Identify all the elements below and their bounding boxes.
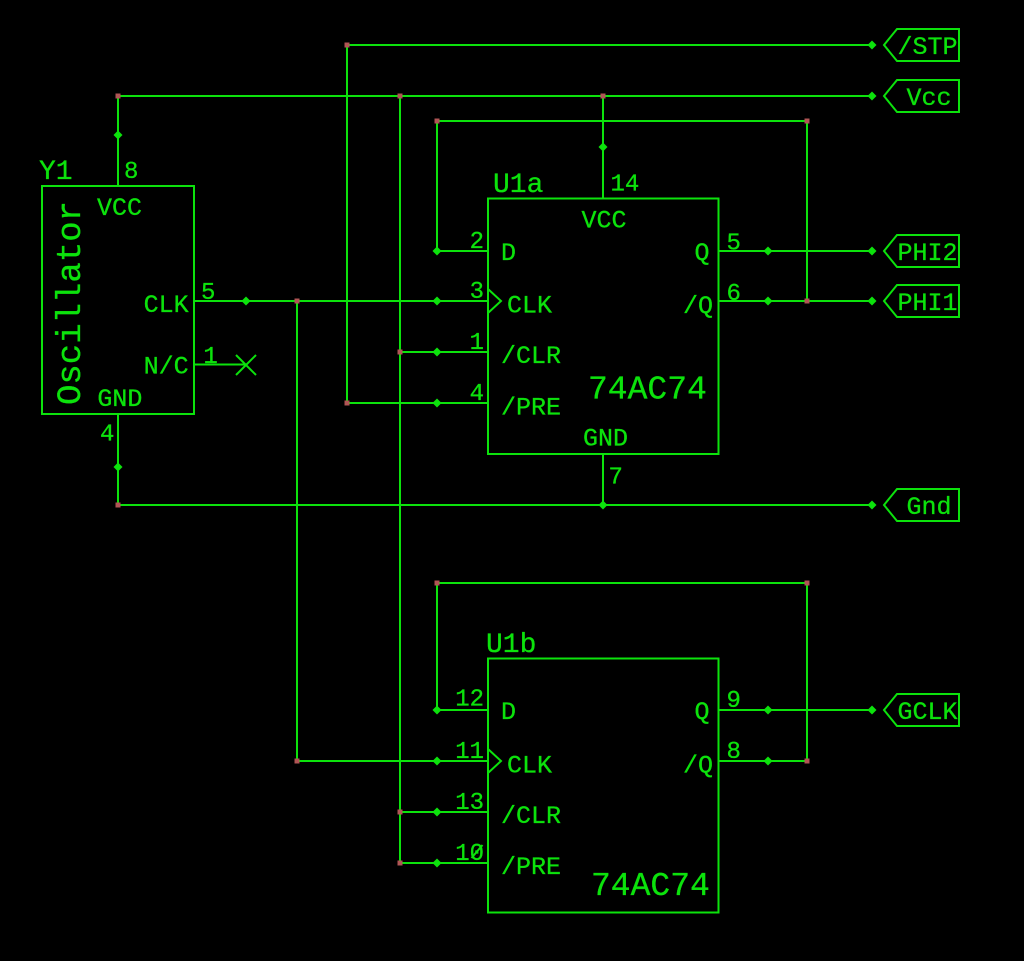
wire net CLK to U1b pin 11: [297, 760, 437, 762]
Y1 pin 1 N/C: [194, 344, 246, 371]
wire U1a feedback vertical: [806, 121, 808, 301]
Y1 pin 8: [118, 135, 138, 186]
Y1 pin 5 CLK: [194, 280, 246, 307]
svg-text:PHI1: PHI1: [898, 289, 958, 318]
wire net Vcc long vertical: [399, 96, 401, 863]
junction dots (pin/net connections): [114, 41, 877, 868]
U1b pin 12 D: [437, 687, 488, 714]
hierarchical label /STP: [884, 29, 959, 62]
svg-text:74AC74: 74AC74: [591, 868, 710, 905]
svg-text:N/C: N/C: [144, 353, 189, 382]
hierarchical label GCLK: [884, 694, 959, 727]
svg-text:5: 5: [727, 231, 741, 258]
wire net PHI2 from U1a Q: [768, 250, 872, 252]
wire net Gnd horizontal: [118, 504, 872, 506]
U1a pin 7 GND: [603, 454, 623, 505]
wire net Vcc to U1b /PRE: [400, 862, 437, 864]
svg-text:U1a: U1a: [493, 170, 543, 201]
svg-text:/PRE: /PRE: [501, 394, 561, 423]
svg-text:12: 12: [455, 687, 484, 714]
no-connect X on Y1 pin 1: [236, 355, 256, 375]
svg-text:8: 8: [124, 159, 138, 186]
svg-text:GND: GND: [583, 425, 628, 454]
svg-text:/CLR: /CLR: [501, 802, 561, 831]
svg-text:Gnd: Gnd: [907, 493, 952, 522]
U1b pin 13 /CLR: [437, 790, 488, 817]
svg-text:4: 4: [100, 422, 114, 449]
svg-text:Oscillator: Oscillator: [53, 201, 91, 405]
Y1 pin 4: [100, 414, 118, 467]
svg-text:Vcc: Vcc: [907, 84, 952, 113]
svg-text:1: 1: [470, 330, 484, 357]
hierarchical label Vcc: [884, 80, 959, 113]
wire net /STP to U1a /PRE: [347, 402, 437, 404]
svg-text:Q: Q: [695, 239, 710, 268]
wire net CLK horizontal: [246, 300, 437, 302]
svg-text:D: D: [501, 698, 516, 727]
U1a pin 2 D: [437, 229, 488, 256]
oscillator Y1 body: [42, 186, 194, 414]
wire net Gnd vertical from Y1 pin 4: [117, 467, 119, 505]
wire net PHI1 from U1a /Q: [768, 300, 872, 302]
wire net Vcc drop to Y1 pin 8: [117, 96, 119, 135]
net endpoint markers (red): [116, 43, 810, 866]
U1a pin 14 VCC: [603, 147, 639, 199]
wire U1a feedback horizontal: [437, 120, 807, 122]
svg-text:CLK: CLK: [507, 292, 552, 321]
wire net /STP horizontal: [347, 44, 872, 46]
svg-text:/CLR: /CLR: [501, 342, 561, 371]
svg-text:PHI2: PHI2: [898, 239, 958, 268]
svg-text:VCC: VCC: [97, 194, 142, 223]
svg-text:2: 2: [470, 229, 484, 256]
U1a pin 1 /CLR: [437, 330, 488, 357]
svg-text:Y1: Y1: [39, 157, 73, 188]
svg-text:3: 3: [470, 279, 484, 306]
svg-text:11: 11: [455, 739, 484, 766]
svg-text:CLK: CLK: [507, 752, 552, 781]
wire U1b feedback vertical: [806, 583, 808, 761]
flip-flop U1b body: [488, 659, 719, 913]
svg-text:U1b: U1b: [486, 630, 536, 661]
svg-text:Q: Q: [695, 698, 710, 727]
svg-text:/STP: /STP: [898, 33, 958, 62]
U1a pin 3 CLK: [437, 279, 488, 306]
U1a pin 5 Q: [719, 231, 769, 258]
svg-text:10: 10: [455, 841, 484, 868]
svg-text:9: 9: [727, 688, 741, 715]
U1a clock triangle: [488, 289, 501, 313]
svg-text:GCLK: GCLK: [898, 698, 958, 727]
U1a pin 6 /Q: [719, 281, 769, 308]
svg-text:6: 6: [727, 281, 741, 308]
svg-text:VCC: VCC: [582, 207, 627, 236]
wire U1a feedback drop to D: [436, 121, 438, 251]
flip-flop U1a body: [488, 199, 719, 455]
wire net Vcc horizontal: [118, 95, 872, 97]
svg-text:1: 1: [203, 344, 217, 371]
wire U1b feedback from /Q: [768, 760, 807, 762]
U1b pin 8 /Q: [719, 739, 769, 766]
svg-text:CLK: CLK: [144, 291, 189, 320]
svg-text:8: 8: [727, 739, 741, 766]
wire net GCLK from U1b Q: [768, 709, 872, 711]
svg-text:/Q: /Q: [683, 752, 713, 781]
hierarchical label PHI1: [884, 285, 959, 318]
wire net /STP vertical: [346, 45, 348, 403]
wire net Vcc drop to U1a pin 14: [602, 96, 604, 147]
svg-text:13: 13: [455, 790, 484, 817]
svg-text:14: 14: [611, 172, 640, 199]
svg-text:74AC74: 74AC74: [588, 372, 707, 409]
hierarchical label PHI2: [884, 235, 959, 268]
U1b pin 9 Q: [719, 688, 769, 715]
U1b clock triangle: [488, 749, 501, 773]
svg-text:GND: GND: [97, 385, 142, 414]
U1a pin 4 /PRE: [437, 381, 488, 408]
svg-text:7: 7: [609, 465, 623, 492]
U1b pin 10 /PRE: [437, 841, 488, 868]
wire net CLK vertical: [296, 301, 298, 761]
wire net Vcc to U1b /CLR: [400, 811, 437, 813]
svg-text:4: 4: [470, 381, 484, 408]
svg-text:5: 5: [201, 280, 215, 307]
svg-text:/Q: /Q: [683, 292, 713, 321]
hierarchical label Gnd: [884, 489, 959, 522]
svg-text:D: D: [501, 239, 516, 268]
wire U1b feedback drop to D: [436, 583, 438, 710]
U1b pin 11 CLK: [437, 739, 488, 766]
svg-text:/PRE: /PRE: [501, 853, 561, 882]
wire U1b feedback horizontal: [437, 582, 807, 584]
wire net Vcc to U1a /CLR: [400, 351, 437, 353]
